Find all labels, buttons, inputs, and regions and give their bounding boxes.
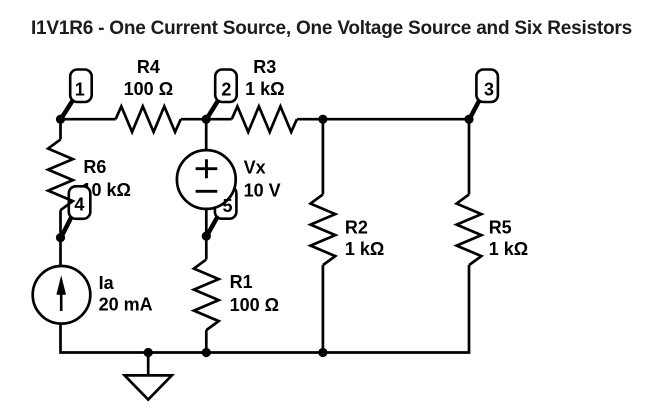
node box 5 xyxy=(215,186,237,219)
wire R5 branch upper xyxy=(468,119,471,194)
junction dot node 1 xyxy=(56,115,65,124)
svg-text:R1: R1 xyxy=(230,272,253,292)
pointer to node 2 xyxy=(207,101,218,118)
wire top: node1 to R4 xyxy=(61,118,116,121)
node box 4 xyxy=(69,186,91,219)
svg-text:R2: R2 xyxy=(345,217,368,237)
wire Vx to node 5 to R1 xyxy=(205,209,208,260)
svg-text:2: 2 xyxy=(221,80,231,100)
wire R1 to bottom xyxy=(205,330,208,352)
svg-text:Vx: Vx xyxy=(244,157,266,177)
svg-text:R3: R3 xyxy=(253,57,276,77)
current source Ia circle xyxy=(33,266,91,324)
arrow of Ia xyxy=(60,280,63,311)
voltage source Vx circle xyxy=(177,150,236,209)
junction dot R1 bottom xyxy=(202,348,211,357)
wire R2 branch upper xyxy=(322,119,325,194)
resistor R6 10 kOhm xyxy=(48,139,73,210)
resistor R2 1 kOhm xyxy=(311,194,336,265)
svg-text:10 V: 10 V xyxy=(244,181,281,201)
wire left bottom + bottom rail + right riser xyxy=(61,265,470,352)
node box 3 xyxy=(476,70,498,103)
wire R2 branch lower xyxy=(322,265,325,352)
resistor R3 1 kOhm xyxy=(232,106,297,132)
svg-text:1 kΩ: 1 kΩ xyxy=(245,79,284,99)
svg-text:Ia: Ia xyxy=(99,273,115,293)
pointer to node 3 xyxy=(470,101,479,118)
svg-text:100 Ω: 100 Ω xyxy=(230,295,279,315)
svg-text:100 Ω: 100 Ω xyxy=(124,79,173,99)
svg-text:1: 1 xyxy=(75,79,85,99)
svg-text:3: 3 xyxy=(484,80,494,100)
resistor R1 100 Ohm xyxy=(194,259,219,330)
junction dot node 4 xyxy=(56,233,65,242)
wire top: R3 to node 3 xyxy=(297,118,469,121)
junction dot node 5 xyxy=(202,232,211,241)
minus sign of Vx xyxy=(196,190,218,193)
plus sign of Vx xyxy=(196,159,218,178)
svg-text:20 mA: 20 mA xyxy=(99,295,153,315)
wire top: R4 to R3 through node 2 xyxy=(181,118,232,121)
svg-text:R4: R4 xyxy=(137,57,160,77)
svg-text:4: 4 xyxy=(74,195,84,215)
resistor R4 100 Ohm xyxy=(116,106,181,132)
node box 2 xyxy=(215,70,237,103)
svg-text:1 kΩ: 1 kΩ xyxy=(345,239,384,259)
pointer to node 1 xyxy=(62,100,74,118)
pointer to node 4 xyxy=(62,217,72,236)
junction dot node 2 xyxy=(202,115,211,124)
svg-text:1 kΩ: 1 kΩ xyxy=(489,239,528,259)
svg-text:R5: R5 xyxy=(489,217,512,237)
wire left branch upper xyxy=(59,118,62,139)
ground triangle xyxy=(125,375,172,399)
svg-text:R6: R6 xyxy=(83,157,106,177)
ground stub xyxy=(147,353,150,376)
junction dot R2 top xyxy=(318,115,327,124)
junction dot ground xyxy=(144,348,153,357)
node box 1 xyxy=(70,70,92,103)
pointer to node 5 xyxy=(207,217,217,235)
junction dot R2 bottom xyxy=(318,348,327,357)
junction dot node 3 xyxy=(464,115,473,124)
wire left branch R6-to-source xyxy=(59,210,62,267)
resistor R5 1 kOhm xyxy=(457,194,482,265)
svg-text:5: 5 xyxy=(222,196,232,216)
wire node2 stub down to Vx xyxy=(205,119,208,150)
svg-text:I1V1R6 - One Current Source, O: I1V1R6 - One Current Source, One Voltage… xyxy=(31,18,632,39)
